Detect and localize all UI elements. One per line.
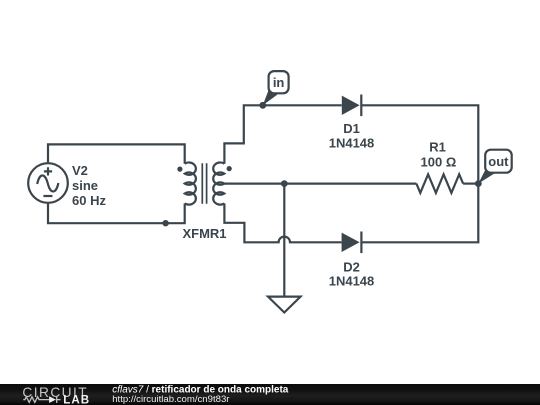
svg-text:sine: sine	[72, 178, 98, 193]
junction dot on V2 bottom wire	[162, 220, 168, 226]
svg-text:in: in	[273, 75, 285, 90]
wire bottom with hop over ground wire	[224, 203, 341, 242]
junction dot center tap / ground	[281, 180, 288, 187]
wire R1 to node out	[463, 183, 478, 185]
svg-text:100 Ω: 100 Ω	[421, 155, 457, 170]
node in junction dot	[259, 102, 266, 109]
svg-text:R1: R1	[429, 140, 446, 155]
transformer XFMR1 primary phase dot	[177, 167, 182, 172]
node out flag box	[485, 150, 512, 173]
svg-text:60 Hz: 60 Hz	[72, 193, 106, 208]
CircuitLab logo diode	[49, 396, 56, 403]
svg-text:1N4148: 1N4148	[329, 273, 375, 288]
transformer XFMR1 secondary phase dot	[227, 166, 232, 171]
wire V2 top to XFMR1 primary top	[48, 144, 185, 163]
node in flag box	[269, 71, 289, 93]
transformer XFMR1 core	[202, 163, 206, 204]
svg-text:D1: D1	[343, 121, 360, 136]
wire D1 cathode right corner down to D2 cathode	[361, 105, 478, 242]
V2 value labels	[72, 163, 106, 208]
diode D1	[342, 95, 362, 117]
node out junction dot	[475, 180, 482, 187]
svg-text:LAB: LAB	[63, 394, 90, 405]
CircuitLab logo resistor zigzag	[23, 397, 49, 403]
node out flag tail	[478, 168, 495, 184]
voltage source V2	[28, 163, 68, 203]
wire V2 bottom to XFMR1 primary bottom	[48, 203, 185, 224]
svg-text:V2: V2	[72, 163, 88, 178]
diode D2	[342, 232, 362, 254]
transformer XFMR1 secondary winding	[213, 162, 224, 204]
footer bar	[0, 384, 540, 405]
transformer XFMR1 primary winding	[185, 162, 196, 204]
node in flag tail	[263, 90, 278, 106]
wire XFMR1 center tap to R1	[224, 183, 416, 185]
svg-text:out: out	[488, 154, 509, 169]
wire node in to D1 anode	[263, 104, 342, 106]
svg-text:D2: D2	[343, 260, 360, 275]
svg-text:1N4148: 1N4148	[329, 135, 375, 150]
svg-text:XFMR1: XFMR1	[182, 226, 226, 241]
wire XFMR1 secondary top to node in	[224, 105, 262, 163]
resistor R1	[416, 174, 463, 193]
wire ground vertical	[283, 184, 285, 297]
svg-text:http://circuitlab.com/cn9t83r: http://circuitlab.com/cn9t83r	[112, 394, 230, 405]
ground symbol	[268, 297, 301, 313]
